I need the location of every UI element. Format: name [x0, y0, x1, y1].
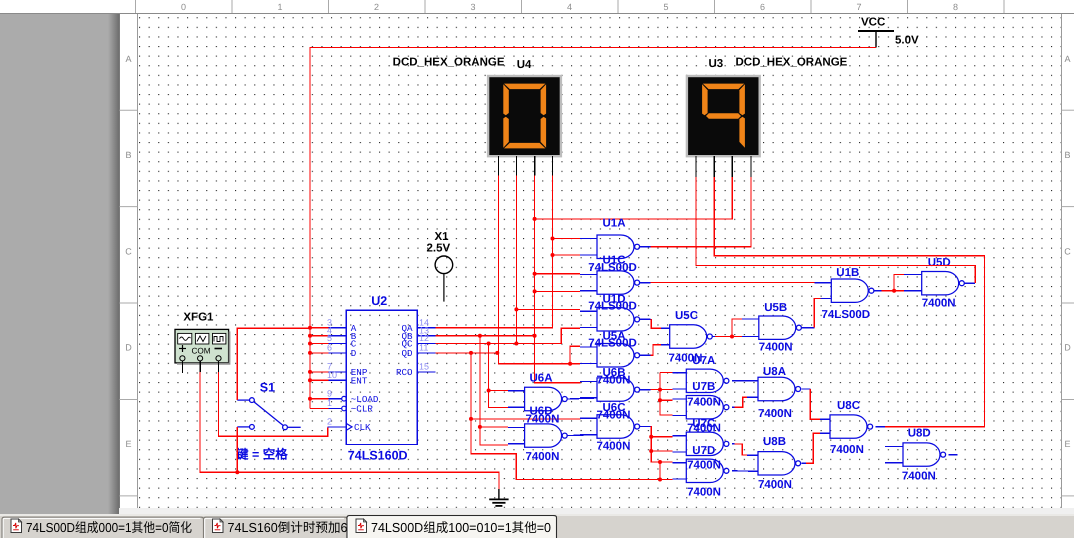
- NAND gate U5D (7400): [922, 272, 965, 295]
- pin 9 ~LOAD of U2: [328, 396, 346, 401]
- svg-text:7400N: 7400N: [902, 471, 936, 483]
- wire U1D output to U5C input A: [650, 319, 661, 328]
- wire U7A output to U8A input A: [732, 380, 758, 382]
- NAND gate U7C (7400): [686, 432, 729, 455]
- svg-text:15: 15: [419, 362, 429, 372]
- svg-text:U8B: U8B: [763, 436, 786, 448]
- output stub of U5A: [640, 354, 651, 356]
- NAND gate U1B (74LS00): [831, 279, 874, 302]
- wire U6D output to U6C input B: [567, 434, 597, 437]
- svg-text:键 = 空格: 键 = 空格: [235, 448, 288, 462]
- wire S1 to VCC/A row: [237, 328, 309, 400]
- NAND gate U8B (7400): [758, 452, 801, 475]
- junction QA/U1A.A: [551, 237, 555, 241]
- svg-text:74LS00D组成100=010=1其他=0: 74LS00D组成100=010=1其他=0: [371, 520, 551, 535]
- wire XFG1 COM to ground rail: [200, 372, 499, 490]
- wire QB to U1C input B: [535, 290, 580, 292]
- svg-text:U8A: U8A: [763, 366, 786, 378]
- output stub of U1B: [874, 290, 882, 292]
- wire net QB: U2.QB to U4 pin3, U3 pin3, U1C, U6B, U6D: [436, 335, 535, 337]
- wire to U7C input A: [651, 436, 672, 438]
- output stub of U5B: [802, 327, 815, 329]
- svg-text:CLK: CLK: [354, 422, 371, 433]
- junction QC/pin2: [514, 342, 518, 346]
- wire VCC stub: [310, 398, 328, 400]
- svg-text:ENT: ENT: [351, 376, 368, 387]
- junction U6B.out rail: [658, 388, 662, 392]
- wire net QA: U2.QA to U4 pin4, U1A inputs: [436, 176, 553, 328]
- svg-text:S1: S1: [260, 380, 275, 394]
- junction U7D.in1 row: [658, 460, 662, 464]
- display U4 DCD_HEX_ORANGE showing 0: [488, 76, 561, 156]
- wire QB branch to U6D input B: [480, 336, 508, 445]
- svg-text:7400N: 7400N: [597, 441, 631, 453]
- svg-text:U7C: U7C: [692, 418, 715, 430]
- svg-text:U6A: U6A: [530, 373, 553, 385]
- wire U1B output to U5D inputs: [882, 290, 904, 292]
- pin of U4 display: [498, 156, 500, 175]
- svg-text:74LS00D: 74LS00D: [822, 309, 871, 321]
- input stubs of U5D: [904, 274, 922, 276]
- svg-text:DCD_HEX_ORANGE: DCD_HEX_ORANGE: [393, 57, 505, 69]
- pin of U3 display: [750, 156, 752, 177]
- junction QA/U1A.B: [551, 253, 555, 257]
- wire QD rail up to U7D input A row: [659, 462, 661, 480]
- junction U6B.out rail 2: [658, 398, 662, 402]
- pin of U4 display: [515, 156, 517, 175]
- input stubs of U7D: [673, 462, 687, 464]
- NAND gate U8D (7400): [903, 443, 946, 466]
- output stub of U1A: [640, 246, 651, 248]
- svg-text:7400N: 7400N: [526, 451, 560, 463]
- junction VCC rail: [308, 351, 312, 355]
- wire VCC stub: [310, 379, 328, 381]
- svg-text:U8C: U8C: [837, 400, 860, 412]
- output stub of U8D (unconnected): [949, 454, 958, 456]
- pin 4 B of U2: [328, 335, 346, 337]
- wire U6A output to U6B input B: [567, 398, 597, 399]
- wire QA to U1A input A: [553, 238, 580, 240]
- NAND gate U1A (7400): [597, 235, 640, 258]
- NAND gate U5B (7400): [759, 316, 802, 339]
- wire U1A output to U3 pin4: [650, 177, 751, 247]
- svg-text:U5D: U5D: [928, 257, 951, 269]
- input stubs of U1C: [580, 273, 597, 275]
- wire U8B output to U8C input B: [802, 462, 807, 464]
- wire XFG1 minus to U2 CLK: [219, 372, 328, 436]
- pin 2 CLK of U2: [328, 423, 352, 430]
- NAND gate U6D (7400): [525, 424, 568, 447]
- pin of U3 display: [713, 156, 715, 177]
- svg-text:7400N: 7400N: [922, 298, 956, 310]
- input stubs of U7A: [673, 372, 687, 374]
- wire U3 pin1/pin2 drops drawn above: [0, 514, 1074, 516]
- svg-text:U4: U4: [517, 59, 532, 71]
- svg-text:U6D: U6D: [530, 406, 553, 418]
- input stubs of U1D: [580, 310, 597, 312]
- junction QC branch: [487, 342, 491, 346]
- NAND gate U8C (7400): [830, 415, 873, 438]
- input stubs of U7C: [673, 435, 687, 437]
- junction U1B.out/U5D: [892, 289, 896, 293]
- junction QC/U6A.A: [487, 389, 491, 393]
- pin 11 QD of U2: [417, 352, 436, 354]
- svg-text:U2: U2: [371, 294, 387, 308]
- svg-text:7400N: 7400N: [597, 410, 631, 422]
- wire to U7A input B: [660, 389, 673, 391]
- svg-text:D: D: [1064, 343, 1071, 353]
- svg-text:DCD_HEX_ORANGE: DCD_HEX_ORANGE: [736, 57, 848, 69]
- svg-text:7400N: 7400N: [687, 396, 721, 408]
- pin 12 QC of U2: [417, 343, 436, 345]
- svg-text:U1A: U1A: [603, 218, 626, 230]
- probe X1 2.5V: [435, 256, 453, 302]
- svg-text:RCO: RCO: [396, 367, 413, 378]
- svg-text:3: 3: [470, 2, 475, 12]
- output stub of U6C: [640, 426, 651, 428]
- svg-text:1: 1: [277, 2, 282, 12]
- wire to U7A input A: [660, 372, 673, 374]
- wire U7D output to U8B input B: [732, 470, 758, 473]
- svg-text:2: 2: [327, 417, 332, 427]
- svg-text:0: 0: [181, 2, 186, 12]
- wire QC to U1D input A: [516, 308, 580, 310]
- svg-text:6: 6: [760, 2, 765, 12]
- pin 10 ENT of U2: [328, 379, 346, 381]
- svg-text:U3: U3: [709, 58, 724, 70]
- pin of U3 display: [695, 156, 697, 177]
- input stubs of U6D: [508, 426, 525, 428]
- svg-text:B: B: [125, 150, 131, 160]
- pin 13 QB of U2: [417, 335, 436, 337]
- svg-text:10: 10: [327, 370, 337, 380]
- svg-text:74LS00D: 74LS00D: [588, 338, 637, 350]
- wire U5D output to U3 pin1: [696, 177, 975, 283]
- wire U5B output to U1B input B: [814, 299, 820, 328]
- input stubs of U5A: [580, 346, 597, 348]
- svg-text:D: D: [125, 343, 132, 353]
- NAND gate U1C (7400): [597, 271, 640, 294]
- wire U8A output to U8C input A: [802, 388, 811, 390]
- svg-text:74LS00D组成000=1其他=0简化: 74LS00D组成000=1其他=0简化: [26, 520, 192, 535]
- output stub of U5C: [712, 336, 715, 338]
- svg-text:2: 2: [374, 2, 379, 12]
- NAND gate U5A (7400): [597, 344, 640, 367]
- wire S1 lower contact to COM rail: [236, 427, 238, 472]
- svg-text:U5B: U5B: [764, 302, 787, 314]
- wire VCC stub: [310, 327, 328, 329]
- junction QD/pin1: [495, 351, 499, 355]
- switch S1: [237, 398, 300, 430]
- NAND gate U1D (7400): [597, 308, 640, 331]
- pin 7 ENP of U2: [328, 371, 346, 373]
- junction QD/U5A: [568, 362, 572, 366]
- svg-text:9: 9: [327, 388, 332, 398]
- svg-text:VCC: VCC: [861, 17, 885, 29]
- svg-text:7: 7: [856, 2, 861, 12]
- instrument XFG1 function generator: [175, 329, 230, 364]
- junction VCC rail: [308, 370, 312, 374]
- wire to U7C input B: [651, 450, 672, 452]
- svg-text:7400N: 7400N: [830, 444, 864, 456]
- ground: [489, 489, 508, 506]
- power VCC symbol: [858, 31, 894, 48]
- pin 5 C of U2: [328, 343, 346, 345]
- junction S1/COM rail: [235, 470, 239, 474]
- junction VCC/A/S1: [308, 326, 312, 330]
- svg-text:2.5V: 2.5V: [427, 243, 451, 255]
- pin 1 ~CLR of U2: [328, 406, 346, 411]
- NAND gate U5C (7400): [670, 325, 713, 348]
- junction VCC rail: [308, 397, 312, 401]
- svg-text:7400N: 7400N: [759, 342, 793, 354]
- svg-text:X1: X1: [435, 231, 450, 243]
- input stubs of U7B: [673, 398, 687, 400]
- svg-text:1: 1: [327, 398, 332, 408]
- wire U6C output to U7C/U7D inputs: [650, 427, 672, 463]
- IC U2 74LS160D body: [346, 310, 417, 444]
- output stub of U1D: [640, 318, 651, 320]
- NAND gate U7A (7400): [686, 369, 729, 392]
- svg-text:U7B: U7B: [692, 381, 715, 393]
- wire QD to U6C input A: [471, 418, 580, 420]
- wire QB to U1C input A: [535, 273, 580, 275]
- wire U5C output to U5B inputs: [715, 336, 742, 338]
- svg-text:11: 11: [419, 343, 428, 353]
- output stub of U6B: [640, 389, 651, 391]
- NAND gate U6C (7400): [597, 415, 640, 438]
- wire VCC rail to U2 inputs: [310, 48, 876, 409]
- svg-text:5.0V: 5.0V: [895, 35, 919, 47]
- wire U5A output to U5C input B: [650, 345, 661, 356]
- pin COM of XFG1: [199, 361, 201, 372]
- pin 3 A of U2: [328, 327, 346, 329]
- svg-text:U1B: U1B: [836, 267, 859, 279]
- pin of U4 display: [534, 156, 536, 175]
- junction VCC rail: [308, 342, 312, 346]
- input stubs of U6C: [580, 417, 597, 419]
- svg-text:7400N: 7400N: [758, 408, 792, 420]
- svg-text:7400N: 7400N: [687, 459, 721, 471]
- wire VCC stub: [310, 352, 328, 354]
- junction VCC rail: [308, 378, 312, 382]
- wire to U7B input A: [660, 399, 673, 401]
- input stubs of U6A: [508, 390, 525, 392]
- output stub of U1C: [640, 282, 651, 284]
- input stubs of U6B: [580, 380, 597, 382]
- junction QB/U1C.A: [533, 272, 537, 276]
- junction QB/U1C.B: [533, 289, 537, 293]
- svg-text:COM: COM: [192, 346, 211, 355]
- svg-text:U8D: U8D: [908, 428, 931, 440]
- wire VCC stub: [310, 343, 328, 345]
- pin of U3 display: [731, 156, 733, 177]
- wire QD to U5A input A: [570, 346, 580, 364]
- svg-text:C: C: [1064, 246, 1071, 256]
- junction U6C.out rail 2: [649, 449, 653, 453]
- input stubs of U8D (unconnected): [885, 445, 903, 447]
- wire VCC to ~CLR: [310, 408, 328, 410]
- svg-text:C: C: [125, 246, 132, 256]
- NAND gate U7D (7400): [686, 459, 729, 482]
- NAND gate U7B (7400): [686, 396, 729, 419]
- wire U8C output to U3 pin2: [714, 177, 984, 427]
- svg-text:U7D: U7D: [692, 445, 715, 457]
- junction QB/U3pin3: [533, 217, 537, 221]
- NAND gate U6A (7400): [525, 387, 568, 410]
- svg-text:~CLR: ~CLR: [351, 404, 374, 415]
- svg-text:74LS160倒计时预加6: 74LS160倒计时预加6: [228, 520, 348, 535]
- junction QB/pin3: [533, 334, 537, 338]
- wire QB vertical / to U6B input A: [535, 176, 581, 383]
- wire U4 pin1 vertical (QD): [499, 176, 571, 364]
- svg-text:7400N: 7400N: [597, 375, 631, 387]
- pin 15 RCO of U2: [417, 371, 436, 373]
- wire VCC stub: [310, 371, 328, 373]
- wire U3 pin3 to QB: [535, 177, 733, 219]
- wire CLK stub: [328, 426, 347, 428]
- input stubs of U5B: [742, 318, 759, 320]
- wire U6B output to U7A/U7B inputs: [650, 389, 660, 391]
- wire net QD: U2.QD to U4 pin1, U5A, U6C, U7D: [436, 352, 498, 354]
- junction QC/U1D.A: [514, 307, 518, 311]
- wire U1C output to U1B input A: [650, 282, 814, 284]
- NAND gate U6B (7400): [597, 378, 640, 401]
- svg-text:D: D: [351, 348, 357, 359]
- pin 6 D of U2: [328, 352, 346, 354]
- wire VCC stub: [310, 335, 328, 337]
- wire QC to U6A input A: [489, 390, 508, 392]
- pin 14 QA of U2: [417, 327, 436, 329]
- svg-text:QD: QD: [401, 348, 413, 359]
- svg-text:XFG1: XFG1: [183, 312, 214, 324]
- svg-text:7400N: 7400N: [758, 479, 792, 491]
- wire net QC: U2.QC to U4 pin2, U1D, U6A: [436, 328, 580, 343]
- junction QD rail/U7D.A: [658, 478, 662, 482]
- svg-text:U7A: U7A: [692, 355, 715, 367]
- svg-text:8: 8: [953, 2, 958, 12]
- display U3 DCD_HEX_ORANGE showing 9: [687, 76, 760, 156]
- input stubs of U1A: [580, 238, 597, 240]
- wire QB to U6D input A: [480, 426, 508, 428]
- junction U6C.out rail: [649, 435, 653, 439]
- NAND gate U8A (7400): [758, 377, 801, 400]
- svg-text:6: 6: [327, 343, 332, 353]
- junction QD/U6C.A: [469, 417, 473, 421]
- pin + of XFG1: [181, 361, 183, 373]
- svg-text:E: E: [1064, 439, 1070, 449]
- junction U5C.out/U5B: [730, 335, 734, 339]
- output stub of U5D: [964, 282, 975, 284]
- svg-text:U5C: U5C: [675, 310, 698, 322]
- wire QC branch to U6A input B: [489, 344, 508, 408]
- junction QD branch: [469, 351, 473, 355]
- svg-text:B: B: [1064, 150, 1070, 160]
- svg-text:74LS160D: 74LS160D: [348, 449, 408, 463]
- svg-text:E: E: [125, 439, 131, 449]
- svg-text:A: A: [1064, 54, 1070, 64]
- pin of U4 display: [552, 156, 554, 175]
- junction VCC rail: [308, 334, 312, 338]
- wire QA to U1A input B: [553, 254, 580, 256]
- wire U4 pin2 vertical (QC): [515, 176, 517, 344]
- junction QB/U6D.A: [478, 425, 482, 429]
- svg-text:4: 4: [567, 2, 572, 12]
- svg-text:A: A: [125, 54, 131, 64]
- wire QD branch down to U7D input B rail: [471, 353, 673, 480]
- wire QD to U5A input B: [570, 363, 580, 365]
- wire U7C output to U8B input A: [732, 443, 734, 445]
- svg-text:74LS00D: 74LS00D: [588, 262, 637, 274]
- wire U7B output to U8A input B: [732, 406, 734, 408]
- output stub of U8C: [876, 426, 885, 428]
- svg-text:7400N: 7400N: [687, 486, 721, 498]
- junction QB branch: [478, 334, 482, 338]
- pin - of XFG1: [218, 361, 220, 372]
- svg-text:5: 5: [663, 2, 668, 12]
